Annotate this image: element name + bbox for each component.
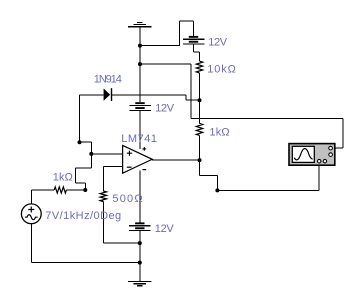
svg-text:500Ω: 500Ω xyxy=(112,193,143,205)
wire diode cathode horizontal xyxy=(111,94,186,96)
wire riser x=179.5 xyxy=(179,21,181,45)
node dot1 ground top xyxy=(138,44,142,48)
wire ground rail to scope xyxy=(191,118,343,120)
wire R3 to dot7 xyxy=(103,242,140,244)
wire scope right drop xyxy=(342,119,344,149)
battery V3 xyxy=(129,222,151,230)
svg-text:1kΩ: 1kΩ xyxy=(53,172,73,184)
input plus mark xyxy=(127,151,132,156)
wire R2 bottom lead to output node xyxy=(199,135,201,160)
wire dot1 to dot2 vertical xyxy=(139,46,141,65)
wire jog to R1 column xyxy=(194,51,200,53)
wire anode down to dot3 xyxy=(79,95,81,142)
wire op-amp - input horizontal xyxy=(103,166,122,168)
battery V2 xyxy=(129,102,151,110)
wire AC source top lead xyxy=(30,190,32,204)
resistor R3 500 zigzag xyxy=(100,191,106,202)
wire battery V1 bottom lead xyxy=(193,44,195,52)
wire dot4 down xyxy=(90,154,92,168)
power minus mark xyxy=(142,169,146,171)
wire jog down x=75.3 xyxy=(74,168,76,183)
wire down to dot4 xyxy=(90,142,92,154)
wire battery V1 top lead xyxy=(193,21,195,36)
svg-text:12V: 12V xyxy=(208,37,228,49)
wire bottom rail xyxy=(31,262,140,264)
wire R1 top lead xyxy=(199,52,201,61)
svg-text:7V/1kHz/0Deg: 7V/1kHz/0Deg xyxy=(45,210,121,222)
wire down to dot5 xyxy=(84,183,86,190)
svg-text:12V: 12V xyxy=(155,103,175,115)
wire node A down to R2 xyxy=(199,100,201,123)
wire step down x=186 xyxy=(185,95,187,100)
svg-text:10kΩ: 10kΩ xyxy=(207,64,237,76)
wire op-amp output xyxy=(152,159,199,161)
wire R1 bottom lead to node A xyxy=(199,73,201,100)
wire dot1 to right riser xyxy=(140,45,180,47)
AC source V4 xyxy=(21,204,41,224)
input minus mark xyxy=(127,166,132,168)
wire dot3 right xyxy=(80,141,92,143)
svg-text:1N914: 1N914 xyxy=(94,73,122,85)
wire jog left y=168.2 xyxy=(75,167,91,169)
wire top horizontal over battery V1 xyxy=(180,20,194,22)
ground GND2 (points down) xyxy=(128,281,151,286)
battery V1 xyxy=(183,36,205,44)
wire output node down xyxy=(199,160,201,176)
power plus mark xyxy=(142,147,146,151)
wire dot8 to scope bottom column xyxy=(217,189,319,191)
wire R3 bottom lead xyxy=(102,202,104,244)
wire jog right y=175.7 xyxy=(200,175,218,177)
wire down to dot8 xyxy=(216,176,218,191)
wire battery V2 bottom to op-amp V+ pin xyxy=(139,111,141,149)
node dot2 xyxy=(138,62,142,66)
wire into scope right terminal xyxy=(335,147,343,149)
wire jog right y=183.1 xyxy=(75,182,85,184)
wire dot2 to corner xyxy=(140,63,191,65)
svg-text:1kΩ: 1kΩ xyxy=(209,127,229,139)
node dot6 bottom ground xyxy=(138,261,142,265)
ground GND2 stem xyxy=(139,263,141,282)
resistor R1 10k zigzag xyxy=(196,61,202,73)
wire dot4 to op-amp + input xyxy=(91,153,122,155)
node dot5 R4 right xyxy=(83,188,87,192)
node dot7 battery V3 bottom xyxy=(138,241,142,245)
wire diode anode horizontal xyxy=(80,94,104,96)
node dot3 anode corner xyxy=(78,140,82,144)
oscilloscope XSC1 xyxy=(289,144,335,166)
node output xyxy=(198,158,202,162)
resistor R2 1k zigzag xyxy=(196,124,202,136)
wire op-amp V- pin to battery V3 xyxy=(139,170,141,222)
resistor R4 1k horizontal zigzag xyxy=(54,187,66,193)
wire scope bottom terminal riser xyxy=(318,165,320,190)
svg-text:LM741: LM741 xyxy=(121,133,157,145)
wire dot2 down to battery V2 xyxy=(139,64,141,102)
node dot4 plus input xyxy=(89,152,93,156)
ground GND1 stem xyxy=(139,27,141,46)
wire step to node A xyxy=(186,99,200,101)
ground GND1 (points up) xyxy=(128,22,151,27)
wire battery V3 bottom through dot7 to dot6 xyxy=(139,231,141,263)
wire - input down to R3 xyxy=(102,167,104,191)
wire R4 left lead xyxy=(31,189,54,191)
svg-text:12V: 12V xyxy=(155,223,175,235)
diode D1 1N914 xyxy=(104,88,112,101)
node A below R1 xyxy=(198,98,202,102)
wire AC source bottom lead xyxy=(30,224,32,263)
node dot8 scope branch xyxy=(215,188,219,192)
wire R4 right lead xyxy=(66,189,85,191)
wire corner down x=191 xyxy=(190,64,192,118)
op-amp U1 LM741 xyxy=(123,145,153,173)
